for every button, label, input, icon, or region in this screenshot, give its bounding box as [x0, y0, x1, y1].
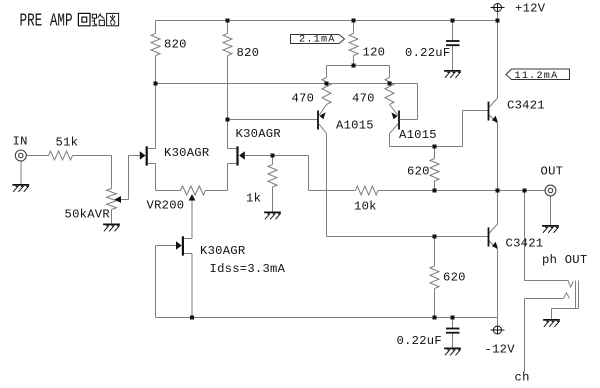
wire 470 right drop — [389, 66, 391, 78]
wire 620#1 bottom — [434, 181, 436, 191]
wire JFET2 gate drop — [308, 156, 310, 191]
svg-text:620: 620 — [407, 165, 430, 179]
phone jack tip notch — [568, 281, 573, 288]
wire phone jack down to ch — [524, 299, 526, 372]
wire JFET2 source stub — [228, 163, 237, 165]
wire JFET1 drain stub — [148, 148, 156, 150]
wire cap1 top — [452, 21, 454, 41]
svg-text:11.2mA: 11.2mA — [515, 71, 559, 82]
wire to JFET1 gate — [129, 155, 140, 157]
wire 820 R2 bottom to JFET2 drain — [227, 56, 229, 149]
wire feedback rail right — [378, 190, 545, 192]
wire 50kAVR bottom — [111, 210, 113, 224]
wire JFET1 source to VR200 — [156, 190, 181, 192]
wire to A1015 R base — [400, 119, 418, 121]
svg-text:0.22uF: 0.22uF — [397, 334, 442, 348]
wire cap1 bottom — [452, 46, 454, 70]
arrow JFET1 gate — [140, 151, 146, 160]
svg-text:470: 470 — [352, 92, 375, 106]
wire sleeve ground stub — [551, 309, 553, 320]
transistor A1015 L collector — [319, 124, 327, 134]
wire 820 R2 top — [227, 21, 229, 34]
arrow 50kAVR wiper — [114, 196, 121, 203]
svg-text:K30AGR: K30AGR — [200, 244, 245, 258]
wire feedback rail left — [309, 190, 356, 192]
wire cap2 top — [452, 318, 454, 329]
transistor C3421 T emitter — [489, 115, 497, 124]
wire 620#2 top — [434, 237, 436, 267]
svg-text:+12V: +12V — [515, 2, 546, 16]
svg-text:620: 620 — [443, 271, 466, 285]
wire 120 bottom — [353, 56, 355, 66]
wire C3421 B collector up — [497, 191, 499, 225]
wire JFET2 source down — [227, 164, 229, 191]
arrow JFET2 gate — [239, 151, 245, 160]
transistor A1015 R collector — [390, 124, 399, 134]
svg-text:50kAVR: 50kAVR — [65, 207, 110, 221]
ground OUT — [542, 226, 559, 233]
capacitor 0.22uF bottom — [446, 329, 460, 333]
svg-text:IN: IN — [13, 135, 28, 149]
transistor JFET K30AGR #2 bar — [236, 146, 238, 165]
ground IN — [12, 185, 29, 192]
resistor R 10k — [356, 186, 379, 195]
wire A1015 L collector drop — [326, 134, 328, 237]
wire IN to 51k — [26, 155, 48, 157]
wire phone jack ring row — [525, 298, 564, 300]
wire 120 top — [353, 21, 355, 34]
wire JFET3 gate drop — [155, 246, 157, 318]
wire IN ground stub — [20, 161, 22, 184]
wire to C3421 T base — [463, 110, 488, 112]
wire JFET1 source stub — [148, 163, 156, 165]
terminal +12V — [491, 3, 505, 12]
transistor A1015 L emitter — [319, 105, 327, 116]
phone jack ring caret — [564, 293, 570, 299]
wire to phone jack tip — [524, 191, 526, 281]
ground 1k — [264, 212, 281, 219]
transistor Q A1015 left bar — [317, 111, 319, 130]
svg-text:2.1mA: 2.1mA — [299, 35, 336, 46]
resistor R 470 right — [385, 78, 394, 105]
svg-text:1k: 1k — [246, 192, 261, 206]
wire OUT ground stub — [550, 196, 552, 225]
svg-text:51k: 51k — [56, 136, 79, 150]
phone jack body — [576, 281, 579, 309]
wire VR200 to JFET2 source — [206, 190, 228, 192]
wire C3421 B base row — [327, 236, 488, 238]
wire VR200 wiper down — [191, 201, 193, 239]
transistor C3421 B emitter — [489, 241, 497, 250]
ground cap2 — [444, 348, 461, 355]
terminal OUT — [545, 185, 556, 196]
wire wiper riser — [128, 156, 130, 200]
current flag 2.1mA — [291, 35, 345, 44]
svg-text:A1015: A1015 — [336, 119, 374, 133]
wire 470 bracket horizontal — [327, 65, 390, 67]
transistor C3421 B collector — [489, 224, 497, 233]
potentiometer VR200 — [181, 186, 206, 195]
wire 470 left drop — [326, 66, 328, 78]
transistor JFET K30AGR #3 bar — [182, 236, 184, 255]
wire phone jack tip row — [525, 280, 569, 282]
wire A1015 R collector drop — [389, 134, 391, 147]
wire JFET drains to 470s — [156, 83, 418, 85]
transistor A1015 R emitter — [390, 105, 399, 116]
svg-text:Idss=3.3mA: Idss=3.3mA — [210, 262, 286, 276]
wire +12V terminal stub — [497, 12, 499, 21]
resistor R 620 #2 — [430, 266, 439, 289]
wire JFET3 source down — [191, 254, 193, 318]
svg-text:120: 120 — [363, 46, 386, 60]
wire 51k to pot — [73, 155, 112, 157]
wire 1k top — [272, 156, 274, 165]
wire C3421 T emitter down — [497, 124, 499, 191]
transistor C3421 T collector — [489, 98, 497, 107]
transistor Q C3421 bottom bar — [488, 228, 490, 247]
terminal -12V — [491, 326, 505, 335]
wire top +12V rail — [156, 20, 498, 22]
wire corner up — [462, 111, 464, 147]
resistor R 1k — [268, 165, 277, 188]
arrow A1015 R emitter (PNP) — [391, 112, 397, 119]
wire JFET2 drain stub — [228, 148, 237, 150]
resistor R 120 — [349, 34, 358, 56]
arrow A1015 L emitter (PNP) — [319, 112, 325, 119]
wire JFET3 drain stub — [184, 238, 192, 240]
ground cap1 — [444, 71, 461, 78]
svg-text:-12V: -12V — [485, 343, 516, 357]
wire 620#2 bottom — [434, 289, 436, 318]
svg-text:470: 470 — [292, 92, 315, 106]
svg-text:C3421: C3421 — [506, 237, 544, 251]
wire 820 R1 bottom to JFET1 drain — [155, 56, 157, 149]
svg-text:ch: ch — [515, 371, 530, 385]
arrow VR200 wiper — [189, 194, 196, 200]
resistor R 51k — [49, 151, 73, 160]
current flag 11.2mA — [506, 69, 570, 80]
wire wiper right — [121, 199, 129, 201]
svg-text:10k: 10k — [354, 200, 377, 214]
wire phone jack sleeve bottom — [552, 308, 579, 310]
svg-text:K30AGR: K30AGR — [164, 146, 209, 160]
wire down to A1015 R base — [417, 84, 419, 120]
resistor R 620 #1 — [430, 159, 439, 182]
wire C3421 T collector up — [497, 21, 499, 99]
wire JFET1 source down — [155, 164, 157, 191]
svg-text:OUT: OUT — [541, 165, 564, 179]
wire JFET2 gate right — [245, 155, 309, 157]
title kanji 回路図 — [78, 13, 90, 25]
svg-text:ph OUT: ph OUT — [542, 253, 587, 267]
potentiometer 50kAVR — [107, 189, 117, 210]
wire cap2 bottom — [452, 333, 454, 347]
svg-text:K30AGR: K30AGR — [236, 127, 281, 141]
wire 820#2 to A1015 L base — [228, 119, 318, 121]
wire C3421 B emitter down — [497, 250, 499, 327]
wire JFET3 source stub — [184, 253, 192, 255]
transistor Q C3421 top bar — [488, 102, 490, 121]
wire down to 50kAVR — [111, 156, 113, 189]
wire 620#1 top — [434, 147, 436, 159]
resistor R 820 #1 — [151, 34, 160, 56]
transistor Q A1015 right bar — [398, 111, 400, 130]
svg-text:820: 820 — [237, 46, 260, 60]
svg-text:820: 820 — [164, 38, 187, 52]
svg-text:VR200: VR200 — [147, 199, 185, 213]
wire bottom rail — [156, 317, 498, 319]
wire A1015 R collector to corner — [390, 146, 463, 148]
wire JFET3 gate left — [156, 245, 177, 247]
resistor R 820 #2 — [223, 34, 232, 56]
svg-text:C3421: C3421 — [507, 99, 545, 113]
svg-text:PRE AMP: PRE AMP — [20, 10, 73, 31]
svg-text:0.22uF: 0.22uF — [405, 46, 450, 60]
arrow C3421 T emitter (NPN) — [492, 116, 498, 123]
svg-text:A1015: A1015 — [399, 128, 437, 142]
terminal IN — [15, 150, 26, 161]
resistor R 470 left — [322, 78, 331, 105]
arrow C3421 B emitter (NPN) — [492, 242, 498, 249]
junction dots — [226, 19, 230, 23]
capacitor 0.22uF top — [446, 41, 460, 45]
ground 50kAVR — [103, 224, 120, 231]
arrow JFET3 gate — [176, 241, 182, 250]
wire 1k bottom — [272, 187, 274, 212]
ground phone jack — [543, 320, 560, 327]
wire 820 R1 top — [155, 21, 157, 34]
transistor JFET K30AGR #1 bar — [146, 146, 148, 165]
